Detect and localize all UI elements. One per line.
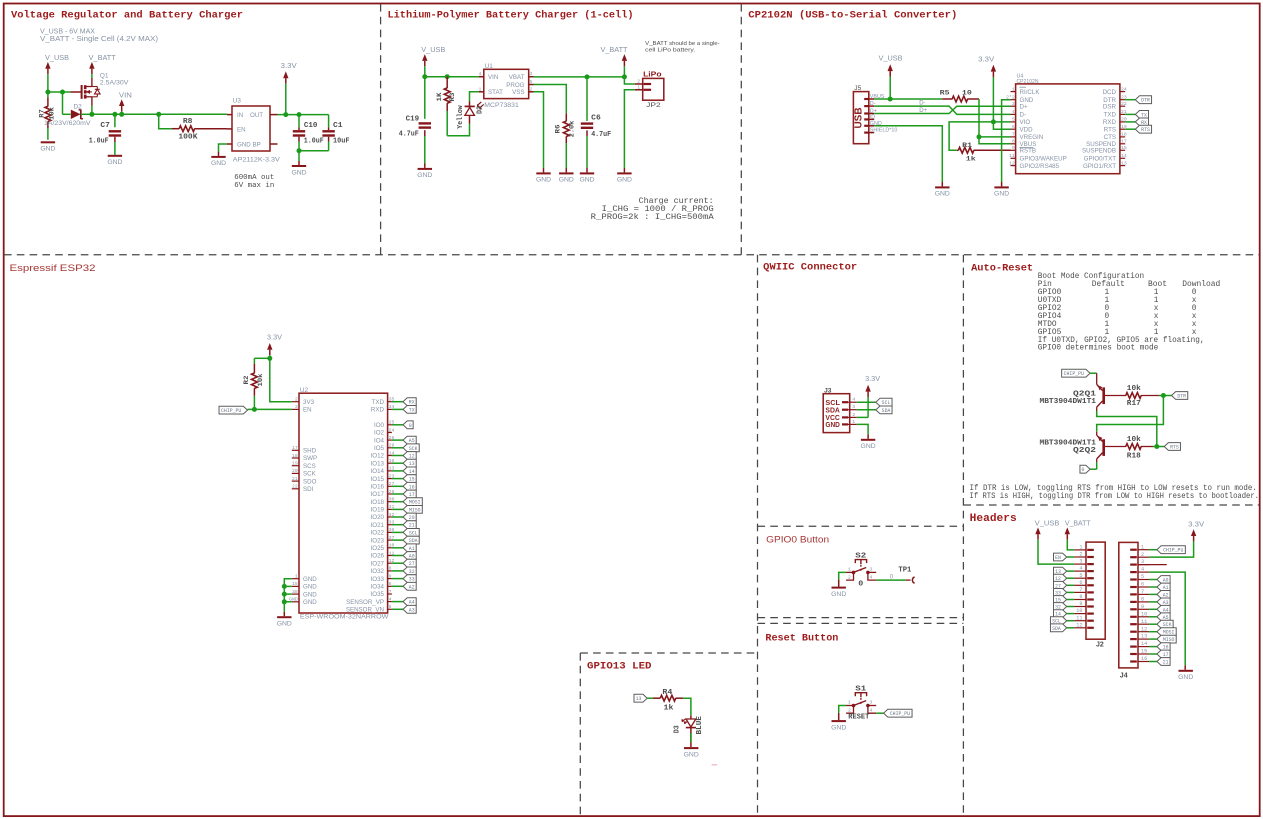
svg-text:GND: GND [994, 191, 1009, 198]
svg-text:R5: R5 [940, 89, 950, 97]
U2 pin 2 3V3 [292, 401, 299, 403]
svg-text:IO20: IO20 [371, 514, 385, 521]
svg-text:7: 7 [1141, 589, 1144, 595]
J4 pin 9 [1138, 608, 1149, 610]
svg-text:V_USB: V_USB [421, 47, 445, 54]
wire R5 to VREGIN/VBUS [979, 99, 1011, 144]
svg-text:3: 3 [869, 567, 872, 573]
svg-text:R2: R2 [243, 376, 251, 385]
svg-text:U2: U2 [300, 387, 309, 394]
svg-text:D-: D- [919, 100, 925, 106]
svg-text:7: 7 [1012, 132, 1015, 138]
wire and tag 33 (esp32) [392, 578, 403, 580]
svg-text:3.3V: 3.3V [865, 376, 880, 383]
wire and tag MISO (esp32) [392, 508, 403, 510]
U2 pin 29 IO5 [388, 447, 392, 449]
svg-text:V_USB - 6V MAX: V_USB - 6V MAX [40, 28, 95, 35]
svg-text:U3: U3 [233, 98, 242, 105]
tag A2 (J4) [1149, 593, 1157, 595]
svg-text:CHIP_PU: CHIP_PU [890, 711, 910, 717]
U2 pin 32 IO20 [388, 516, 392, 518]
wire VSS to ground [534, 92, 544, 168]
svg-text:GND: GND [579, 177, 594, 184]
resistor R18 10k [1126, 444, 1141, 450]
svg-text:R_PROG=2k : I_CHG=500mA: R_PROG=2k : I_CHG=500mA [591, 212, 714, 222]
wire D- crossover [874, 106, 1010, 114]
wire R3 bottom loop to LED [447, 124, 469, 136]
wire LED anode to STAT [470, 92, 479, 102]
svg-text:GND: GND [303, 591, 317, 598]
U2 pin 5 SENSOR_VN [388, 608, 392, 610]
tag 27 (J2) [1067, 584, 1074, 586]
svg-text:IO5: IO5 [374, 445, 385, 452]
svg-text:LiPo: LiPo [643, 71, 662, 78]
svg-text:RTS: RTS [1141, 127, 1150, 133]
svg-text:MCP73831: MCP73831 [484, 102, 519, 109]
wire and tag 12 (esp32) [392, 455, 403, 457]
J4 pin 3 [1138, 564, 1149, 566]
resistor R3 1K [446, 77, 448, 88]
tag CHIP_PU (auto-reset) [1062, 369, 1090, 377]
wire S2 pin1 to ground [839, 572, 846, 579]
IC U1 MCP73831 [484, 69, 529, 98]
wire U3 GND to ground [219, 144, 228, 152]
svg-text:A4: A4 [1163, 607, 1169, 613]
wire DTR to Q2 emitter [1097, 396, 1164, 432]
svg-text:VIO: VIO [1020, 119, 1031, 126]
svg-text:2*2: 2*2 [1006, 95, 1015, 101]
svg-text:QWIIC Connector: QWIIC Connector [763, 261, 857, 273]
svg-text:2: 2 [1079, 552, 1082, 558]
capacitor C7 1.0uF [114, 114, 116, 127]
svg-text:MISO: MISO [409, 507, 421, 513]
LED D3 Yellow [465, 105, 475, 107]
svg-text:PROG: PROG [506, 82, 524, 89]
svg-text:SDI: SDI [303, 486, 314, 493]
svg-text:R8: R8 [183, 118, 193, 126]
wire and tag SDA (esp32) [392, 539, 403, 541]
svg-text:1: 1 [479, 86, 482, 92]
svg-text:C6: C6 [591, 115, 601, 123]
J4 pin 15 [1138, 653, 1149, 655]
wire VBUS to R5 [874, 98, 942, 100]
wire LED to ground [690, 728, 692, 743]
tag CHIP_PU (reset) [884, 709, 912, 717]
wire and tag A5 (esp32) [392, 439, 403, 441]
J2 pin 4 [1074, 570, 1086, 572]
svg-text:33: 33 [409, 577, 415, 583]
wire VDD pin [993, 122, 1010, 129]
svg-text:TXD: TXD [1104, 112, 1117, 119]
U2 pin 30 IO18 [388, 501, 392, 503]
svg-text:U1: U1 [485, 63, 494, 70]
svg-text:2: 2 [848, 707, 851, 713]
U4 pin 15 SUSPENDB [1120, 149, 1125, 151]
svg-text:6: 6 [389, 581, 392, 587]
U2 pin 9 IO33 [388, 578, 392, 580]
wire J4 pin2 to 3.3V [1149, 541, 1194, 557]
ground GND below R6 [559, 172, 573, 174]
svg-text:IO33: IO33 [371, 576, 385, 583]
U4 pin 1 RI/CLK [1011, 91, 1016, 93]
svg-text:IO17: IO17 [371, 491, 385, 498]
U2 pin 21 SDO [292, 480, 299, 482]
svg-text:15: 15 [409, 477, 415, 483]
svg-text:J2: J2 [1096, 641, 1104, 648]
svg-text:0: 0 [858, 580, 863, 588]
svg-text:GND: GND [107, 159, 122, 166]
node junction R3 [445, 74, 450, 79]
svg-text:13: 13 [409, 461, 415, 467]
wire and tag 14 (esp32) [392, 470, 403, 472]
U2 pin 33 IO21 [388, 524, 392, 526]
tag SDA (J2) [1067, 627, 1074, 629]
svg-text:IO27: IO27 [371, 560, 385, 567]
U4 pin 12 GPIO2/RS485 [1011, 165, 1016, 167]
U2 pin 4 SENSOR_VP [388, 601, 392, 603]
ground GND below C19 [418, 168, 432, 170]
wire main VIN rail [81, 113, 92, 115]
U2 pin 34 RXD [388, 408, 392, 410]
J2 pin 8 [1074, 599, 1086, 601]
svg-text:IO15: IO15 [371, 476, 385, 483]
svg-text:1: 1 [1079, 545, 1082, 551]
wire and tag TX (esp32) [392, 408, 403, 410]
U2 pin 7 IO35 [388, 593, 392, 595]
svg-text:SHD: SHD [303, 448, 317, 455]
wire and tag SCK (esp32) [392, 447, 403, 449]
tag 32 (J2) [1067, 606, 1074, 608]
tag A0 (J4) [1149, 579, 1157, 581]
ground GND below U2 [277, 616, 291, 618]
svg-text:6: 6 [1141, 582, 1144, 588]
svg-text:MOSI: MOSI [409, 500, 421, 506]
svg-text:OUT: OUT [250, 112, 263, 119]
ground GND below S1 [832, 720, 846, 722]
wire VIN rail sec2 [425, 76, 479, 78]
node junction Q1 source [89, 112, 94, 117]
svg-text:21: 21 [1163, 660, 1169, 666]
wire U4 GND to ground [1002, 100, 1011, 182]
wire D+ crossover [874, 106, 1010, 113]
svg-text:19: 19 [292, 461, 298, 467]
J2 pin 9 [1074, 606, 1086, 608]
svg-text:SCL: SCL [409, 530, 418, 536]
wire R8 branch [159, 114, 172, 128]
svg-text:SWP: SWP [303, 455, 317, 462]
svg-text:SHIELD*10: SHIELD*10 [870, 128, 898, 134]
svg-text:D3: D3 [673, 725, 681, 733]
resistor R7 10k [47, 92, 49, 98]
connector J3 QWIIC [823, 394, 850, 433]
svg-text:GPIO0 Button: GPIO0 Button [766, 535, 829, 546]
svg-text:IO18: IO18 [371, 499, 385, 506]
IC U4 CP2102N [1016, 84, 1120, 174]
wire U2 GND chain [284, 579, 292, 612]
ground GND below J5 [935, 186, 949, 188]
svg-text:3: 3 [1079, 559, 1082, 565]
svg-text:SDO: SDO [303, 478, 317, 485]
svg-text:2.5A/30V: 2.5A/30V [100, 80, 129, 87]
svg-text:C10: C10 [304, 122, 318, 130]
section divider dashed lines [4, 254, 1259, 256]
J4 pin 3 stub [1138, 564, 1167, 566]
J2 pin 7 [1074, 591, 1086, 593]
svg-text:EN: EN [237, 126, 246, 133]
ground GND below VSS [536, 172, 550, 174]
U4 pin 14 GPIO0/TXT [1120, 157, 1125, 159]
svg-text:6: 6 [1012, 124, 1015, 130]
U2 pin 15 GND [292, 585, 299, 587]
svg-text:11: 11 [1141, 619, 1147, 625]
node junction R2/EN [252, 407, 257, 412]
U4 pin 5 VIO [1011, 121, 1016, 123]
J4 pin 14 [1138, 646, 1149, 648]
resistor R5 10 [942, 98, 952, 100]
wire and tag RX [1125, 121, 1135, 123]
svg-text:CP2102N: CP2102N [1017, 79, 1039, 85]
svg-text:GPIO3/WAKEUP: GPIO3/WAKEUP [1020, 156, 1067, 163]
capacitor C19 4.7uF [424, 77, 426, 119]
node junction 3.3V rail [283, 112, 288, 117]
ground GND below JP2 [617, 172, 631, 174]
svg-text:16: 16 [409, 484, 415, 490]
svg-text:RSTB: RSTB [1020, 148, 1037, 155]
U2 pin 3 EN [292, 408, 299, 410]
wire and tag 21 (esp32) [392, 524, 403, 526]
switch S1 pin 3 [868, 705, 876, 707]
svg-text:2: 2 [295, 397, 298, 403]
wire and tag 0 (esp32) [392, 424, 403, 426]
switch S1 pin 4 [868, 706, 876, 714]
wire and tag 16 (esp32) [392, 485, 403, 487]
wire V_BATT to J2 pin1 [1067, 540, 1074, 550]
connector JP2 LiPo [643, 78, 664, 100]
wire D2 branch down [62, 92, 64, 114]
U2 pin 25 IO0 [388, 424, 392, 426]
svg-text:1: 1 [848, 700, 851, 706]
svg-text:If RTS is HIGH, toggling DTR f: If RTS is HIGH, toggling DTR from LOW to… [970, 492, 1260, 501]
svg-text:V_BATT - Single Cell (4.2V MAX: V_BATT - Single Cell (4.2V MAX) [40, 36, 158, 43]
svg-text:1: 1 [1012, 86, 1015, 92]
svg-text:GND: GND [303, 576, 317, 583]
svg-text:600mA out: 600mA out [234, 174, 274, 182]
wire to gate node [48, 91, 63, 93]
wire and tag A4 (esp32) [392, 601, 403, 603]
svg-text:VIN: VIN [488, 74, 498, 81]
tag MOSI (J4) [1149, 631, 1157, 633]
wire CHIP_PU to EN [248, 408, 292, 410]
wire battery pin 2 [624, 77, 634, 84]
U2 pin 24 IO2 [388, 432, 392, 434]
svg-text:D+: D+ [919, 108, 927, 114]
U2 pin 10 IO25 [388, 547, 392, 549]
svg-text:BP: BP [253, 141, 261, 148]
svg-text:IO12: IO12 [371, 453, 385, 460]
svg-text:EN: EN [1055, 555, 1061, 561]
JP2 pin 1 [635, 89, 643, 91]
tag 16 (J4) [1149, 646, 1157, 648]
node junction 3.3V esp32 [267, 356, 272, 361]
wire junction to Q1 gate [63, 91, 71, 93]
wire V_USB to J2 pin3 [1038, 540, 1074, 565]
svg-text:GND: GND [211, 160, 226, 167]
U2 pin 37 IO23 [388, 539, 392, 541]
svg-text:27: 27 [409, 561, 415, 567]
wire V_USB down [47, 74, 49, 92]
svg-text:Headers: Headers [970, 513, 1017, 525]
svg-text:7: 7 [1079, 587, 1082, 593]
J4 pin 12 [1138, 631, 1149, 633]
svg-text:STAT: STAT [488, 89, 503, 96]
svg-text:GND: GND [417, 172, 432, 179]
transistor Q2Q1 MBT3904DW1T1 [1102, 387, 1105, 404]
svg-text:V_BATT should be a single-: V_BATT should be a single- [645, 41, 720, 47]
svg-text:15: 15 [1141, 649, 1147, 655]
tag DTR (auto-reset) [1172, 392, 1188, 400]
U4 pin 13 GPIO1/RXT [1120, 165, 1125, 167]
wire SCL to tag [857, 401, 876, 403]
tag A3 (J4) [1149, 601, 1157, 603]
svg-text:8: 8 [1141, 597, 1144, 603]
svg-text:GPIO0/TXT: GPIO0/TXT [1084, 156, 1117, 163]
svg-text:S1: S1 [855, 686, 866, 694]
svg-text:VIN: VIN [119, 92, 132, 99]
U1 pin 1 STAT [479, 91, 484, 93]
svg-text:GND: GND [831, 591, 846, 598]
svg-text:6: 6 [1079, 580, 1082, 586]
svg-text:Q2Q2: Q2Q2 [1073, 447, 1096, 455]
wire and tag DTR [1125, 99, 1135, 101]
svg-text:VSS: VSS [512, 89, 524, 96]
svg-text:1: 1 [852, 419, 855, 425]
tag 21 (J4) [1149, 661, 1157, 663]
svg-text:IO16: IO16 [371, 484, 385, 491]
resistor R1 1k [957, 149, 959, 151]
svg-text:4.7uF: 4.7uF [591, 131, 611, 139]
J4 pin 1 [1138, 549, 1149, 551]
wire CHIP_PU to Q1 emitter [1090, 372, 1097, 374]
svg-text:18: 18 [292, 453, 298, 459]
svg-text:3: 3 [852, 404, 855, 410]
svg-text:10k: 10k [1127, 436, 1141, 444]
U2 pin 31 IO19 [388, 508, 392, 510]
svg-text:4: 4 [852, 397, 855, 403]
svg-text:100K: 100K [178, 134, 198, 142]
testpoint TP1 [906, 579, 911, 581]
node junction gate/D2 branch [60, 90, 65, 95]
wire and tag A3 (esp32) [392, 608, 403, 610]
diode D2 [71, 110, 81, 119]
svg-text:RXD: RXD [1103, 119, 1117, 126]
wire J5 GND to ground [874, 126, 942, 182]
svg-text:13: 13 [1141, 634, 1147, 640]
J2 pin 12 [1074, 627, 1086, 629]
tag 0 (auto-reset) [1080, 465, 1090, 473]
svg-text:3.3V: 3.3V [1188, 521, 1204, 528]
tag SCL (J2) [1067, 620, 1074, 622]
svg-text:15: 15 [1121, 145, 1127, 151]
svg-text:1k: 1k [664, 705, 674, 713]
node junction VIN [119, 112, 124, 117]
svg-text:4: 4 [389, 596, 392, 602]
svg-text:3.3V: 3.3V [978, 57, 994, 64]
svg-text:ESP-WROOM-32NARROW: ESP-WROOM-32NARROW [300, 614, 390, 621]
resistor R4 1k [653, 697, 660, 699]
tag 12 (J2) [1067, 577, 1074, 579]
svg-text:14: 14 [1141, 641, 1147, 647]
tag 33 (J2) [1067, 591, 1074, 593]
U4 pin 19 RTS [1120, 128, 1125, 130]
svg-text:A5: A5 [409, 438, 415, 444]
svg-text:6V max in: 6V max in [234, 182, 274, 190]
ground GND below U3 [211, 156, 225, 158]
U2 pin 16 IO13 [388, 462, 392, 464]
svg-text:R3: R3 [449, 93, 457, 102]
wire and tag 27 (esp32) [392, 562, 403, 564]
tag 17 (J4) [1149, 653, 1157, 655]
U2 pin GND GND [292, 601, 299, 603]
svg-text:IO21: IO21 [371, 522, 385, 529]
U2 pin 14 IO12 [388, 455, 392, 457]
U4 pin 17 SUSPEND [1120, 143, 1125, 145]
svg-text:4.7uF: 4.7uF [399, 130, 419, 138]
wire battery pin 1 to ground [624, 90, 634, 168]
svg-text:3: 3 [530, 71, 533, 77]
svg-text:R4: R4 [662, 689, 672, 697]
tag A1 (J4) [1149, 586, 1157, 588]
svg-text:CHIP_PU: CHIP_PU [221, 408, 241, 414]
svg-text:GND: GND [861, 443, 876, 450]
J5 pin VBUS [869, 98, 874, 100]
svg-text:IO23: IO23 [371, 537, 385, 544]
svg-text:A0: A0 [409, 554, 415, 560]
wire PROG to R6 [534, 85, 567, 114]
U2 pin 38 GND [292, 593, 299, 595]
svg-text:1k: 1k [966, 156, 976, 164]
svg-text:2: 2 [848, 574, 851, 580]
U2 pin 17 SHD [292, 449, 299, 451]
svg-text:5: 5 [530, 79, 533, 85]
U2 pin 22 SDI [292, 488, 299, 490]
svg-text:10uF: 10uF [333, 138, 350, 146]
node junction C10 [297, 112, 302, 117]
svg-text:5: 5 [1079, 573, 1082, 579]
svg-text:2: 2 [852, 412, 855, 418]
svg-text:V_USB: V_USB [1035, 520, 1060, 527]
svg-text:3V3: 3V3 [303, 399, 315, 406]
U3 pin IN [227, 114, 232, 116]
U4 pin 24 DCD [1120, 91, 1125, 93]
svg-text:5: 5 [389, 604, 392, 610]
wire VIO pin [993, 121, 1010, 123]
svg-text:24: 24 [1121, 86, 1127, 92]
svg-text:21: 21 [292, 476, 298, 482]
U4 pin 8 VBUS [1011, 143, 1016, 145]
svg-text:EN: EN [303, 407, 312, 414]
svg-text:16: 16 [1141, 656, 1147, 662]
svg-text:GPIO0 determines boot mode: GPIO0 determines boot mode [1038, 344, 1159, 353]
svg-text:9: 9 [1012, 145, 1015, 151]
svg-text:17: 17 [1121, 139, 1127, 145]
svg-text:IO22: IO22 [371, 530, 385, 537]
svg-text:Yellow: Yellow [457, 105, 465, 129]
svg-text:22: 22 [1121, 101, 1127, 107]
svg-text:IO32: IO32 [371, 568, 385, 575]
svg-text:9: 9 [1079, 601, 1082, 607]
svg-text:IN: IN [237, 112, 243, 119]
svg-text:IO19: IO19 [371, 507, 385, 514]
